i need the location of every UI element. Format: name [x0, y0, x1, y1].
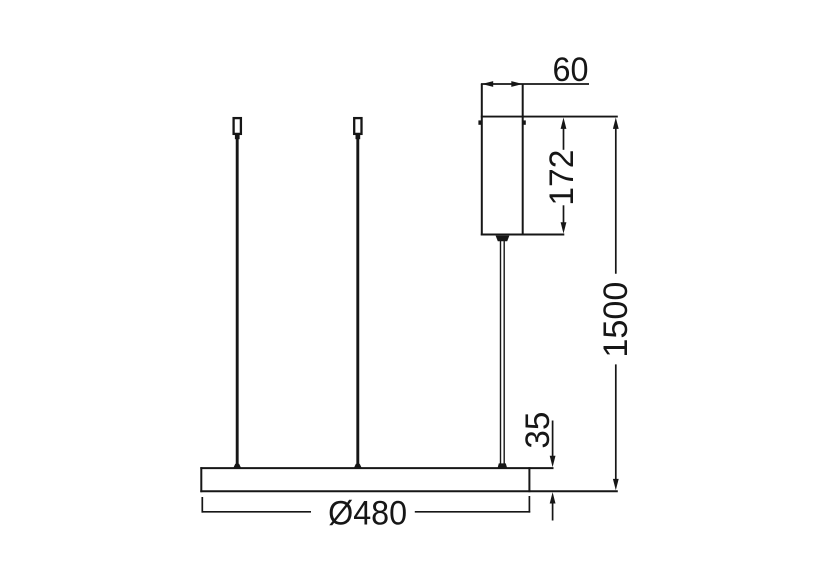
- dimension 60: right arrowhead: [511, 81, 522, 87]
- canopy bottom edge, extended right to dim line 172: [481, 233, 565, 235]
- dimension Ø480: right extension line: [528, 496, 530, 513]
- dimension 1500: dimension line upper segment with up arrowhead: [613, 118, 619, 274]
- dimension 172: dimension line lower segment with down arrowhead: [561, 205, 567, 233]
- lamp bar left edge: [200, 467, 202, 492]
- canopy mounting tab right: [522, 120, 525, 124]
- suspension fitting F1 (ceiling grip, left): [234, 118, 241, 139]
- dimension Ø480: left extension line: [201, 497, 203, 513]
- lamp bar bottom edge (extends right to 1500-dim line): [200, 490, 618, 492]
- canopy / driver box left edge (also extension line for 60): [481, 84, 483, 236]
- power cord nipple under canopy: [496, 236, 510, 242]
- svg-text:172: 172: [543, 150, 581, 206]
- svg-text:35: 35: [519, 412, 557, 449]
- power cord (double line): [501, 241, 505, 464]
- svg-text:1500: 1500: [597, 282, 635, 358]
- dimension 35: upper dimension line with down arrowhead at bar top: [550, 421, 556, 468]
- power cord foot on bar: [498, 463, 508, 468]
- suspension fitting F2 (ceiling grip, middle): [354, 118, 361, 139]
- dimension Ø480: dimension line left segment: [202, 511, 312, 513]
- lamp bar right edge: [528, 467, 530, 492]
- dimension 60: dimension line: [481, 83, 589, 85]
- dimension Ø480: dimension line right segment: [415, 511, 530, 513]
- dimension 60: left arrowhead: [482, 81, 493, 87]
- lamp bar top edge (extends right to 35-dim line): [200, 467, 553, 469]
- svg-text:60: 60: [553, 51, 589, 89]
- ceiling reference line: [481, 116, 618, 118]
- dimension 172: dimension line upper segment with up arrowhead: [561, 118, 567, 150]
- canopy mounting tab left: [478, 120, 481, 124]
- svg-text:Ø480: Ø480: [328, 494, 407, 532]
- canopy / driver box right edge (also extension line for 60): [522, 84, 524, 236]
- dimension 35: lower tail with up arrowhead at bar bottom: [550, 492, 556, 520]
- suspension wire 2 (middle): [354, 139, 362, 468]
- dimension 1500: dimension line lower segment with down arrowhead: [613, 364, 619, 490]
- suspension wire 1 (left): [233, 139, 241, 468]
